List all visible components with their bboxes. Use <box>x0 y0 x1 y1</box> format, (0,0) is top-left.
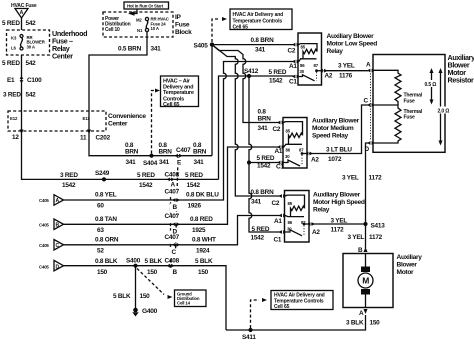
svg-text:A1: A1 <box>289 63 297 70</box>
svg-text:341: 341 <box>255 47 266 54</box>
svg-text:3 RED: 3 RED <box>3 92 21 99</box>
svg-text:C407: C407 <box>165 189 180 196</box>
svg-text:3 YEL: 3 YEL <box>342 175 359 182</box>
svg-text:0.8 YEL: 0.8 YEL <box>95 192 117 199</box>
svg-text:150: 150 <box>97 269 108 276</box>
wire 3 RED 1542 from pin 12 down and right to S249 <box>22 133 105 179</box>
wire 0.8 BRN 341 branch from S405 to relay2 C2 <box>212 45 279 123</box>
svg-text:C100: C100 <box>27 77 42 84</box>
wire 0.8 BRN 341 from S405 to relay1 C2 <box>212 44 294 46</box>
svg-text:Blower: Blower <box>397 262 418 269</box>
svg-text:Auxiliary Blower: Auxiliary Blower <box>312 118 360 125</box>
svg-text:Speed Relay: Speed Relay <box>312 133 349 140</box>
wire 3 YEL 1172 from relay3 A2 to S413 <box>311 223 366 225</box>
svg-text:Cell 65: Cell 65 <box>274 304 290 310</box>
resistor element R2 with thermal fuse (2.0 ohm) <box>373 105 401 143</box>
svg-text:0.8 ORN: 0.8 ORN <box>95 237 119 244</box>
splice S411 <box>248 328 252 332</box>
svg-text:A1: A1 <box>275 148 283 155</box>
svg-text:1924: 1924 <box>196 248 210 255</box>
connector C407 dashed line <box>176 157 179 252</box>
svg-text:1926: 1926 <box>188 203 202 210</box>
splice S404 <box>149 154 153 158</box>
svg-text:85: 85 <box>286 129 291 134</box>
svg-text:5 RED: 5 RED <box>185 172 203 179</box>
svg-text:A: A <box>366 61 371 68</box>
svg-text:Cell 14: Cell 14 <box>177 301 191 306</box>
svg-text:52: 52 <box>97 248 104 255</box>
relay U1 switch contact <box>299 75 315 81</box>
svg-text:1542: 1542 <box>187 182 201 189</box>
feed wire from Hot In Run Or Start into IP fuse block <box>131 9 137 14</box>
svg-text:Relay: Relay <box>327 48 344 55</box>
svg-text:1176: 1176 <box>339 73 353 80</box>
svg-text:85: 85 <box>301 45 306 50</box>
svg-text:5 RED: 5 RED <box>257 155 275 162</box>
svg-text:0.8: 0.8 <box>258 109 267 116</box>
wire 3 LT BLU 1072 from relay2 A2 to resistor C <box>309 105 368 154</box>
svg-text:B: B <box>173 204 178 211</box>
svg-text:A: A <box>20 10 24 16</box>
svg-text:C1: C1 <box>289 79 297 86</box>
svg-text:341: 341 <box>194 159 205 166</box>
svg-text:Center: Center <box>108 121 128 128</box>
wire 0.8 YEL 60 from C405-A through C407 pin B, becomes 0.8 DK BLU 1926, rises to relay1 A1 <box>64 62 295 201</box>
wire 5 RED 1542 from relay2 C1 tee down to relay3 C1 <box>249 163 281 233</box>
svg-text:C405: C405 <box>39 265 49 270</box>
wire 5 BLK 150 from S400 through C408 pin B to corner <box>136 266 227 330</box>
splice S249 <box>102 177 106 181</box>
svg-text:341: 341 <box>159 159 170 166</box>
svg-text:1172: 1172 <box>369 175 383 182</box>
relay U1 Auxiliary Blower Motor Low Speed Relay box <box>298 33 322 85</box>
wire 0.8 BRN 341 from S404 through C407 pin E <box>152 155 213 157</box>
svg-text:5 BLK: 5 BLK <box>113 293 131 300</box>
svg-text:341: 341 <box>251 199 262 206</box>
svg-text:C407: C407 <box>165 234 180 241</box>
splice S405 <box>210 42 214 46</box>
label box HVAC Air Delivery and Temperature Controls Cell 65 (bottom) <box>271 291 333 310</box>
wire 5 RED 542 from underhood fuse to C100 <box>21 55 23 111</box>
svg-text:5 BLK: 5 BLK <box>145 258 163 265</box>
svg-text:86: 86 <box>300 63 305 68</box>
wire 5 BLK 150 bottom rail through S411 to motor A <box>226 315 366 330</box>
relay U3 switch contact <box>285 230 302 236</box>
svg-text:5 RED: 5 RED <box>137 172 155 179</box>
svg-text:BRN: BRN <box>159 149 173 156</box>
svg-text:E12: E12 <box>10 116 18 121</box>
relay U3 Auxiliary Blower Motor High Speed Relay box <box>285 191 310 243</box>
svg-text:0.8 BRN: 0.8 BRN <box>251 37 275 44</box>
svg-text:87: 87 <box>299 147 304 152</box>
svg-text:150: 150 <box>198 269 209 276</box>
svg-text:3 BLK: 3 BLK <box>346 320 364 327</box>
label box HVAC Air Delivery and Temperature Controls Cell 65 (top) <box>230 9 292 30</box>
wire 0.8 BLK 150 from C405-D to S400 <box>64 265 136 267</box>
svg-text:Hot In Run Or Start: Hot In Run Or Start <box>127 4 164 9</box>
svg-text:30: 30 <box>285 154 290 159</box>
svg-text:Center: Center <box>52 52 73 61</box>
svg-text:0.5 BRN: 0.5 BRN <box>118 46 142 53</box>
svg-text:Convenience: Convenience <box>108 113 146 120</box>
resistor block Auxiliary Blower Motor Resistor box <box>373 55 445 153</box>
fuse RR HVAC Fuse 24 10A symbol <box>145 17 148 20</box>
svg-text:Cell 65: Cell 65 <box>233 25 249 31</box>
svg-text:150: 150 <box>147 269 158 276</box>
connector C408 dashed line <box>170 182 172 274</box>
wire 0.8 BRN 341 branch from S405 to relay3 C2 <box>212 45 281 196</box>
svg-text:C408: C408 <box>165 258 180 265</box>
svg-text:30 A: 30 A <box>27 44 35 49</box>
svg-text:5 BLK: 5 BLK <box>195 258 213 265</box>
fuse RR BLOWER 30 A symbol <box>20 35 23 38</box>
svg-text:3 RED: 3 RED <box>60 172 78 179</box>
svg-text:Fuse: Fuse <box>175 22 190 29</box>
svg-text:Motor: Motor <box>397 269 415 276</box>
wire 5 BLK 150 from S400 down to G400 <box>135 266 137 308</box>
svg-text:3 LT BLU: 3 LT BLU <box>326 147 352 154</box>
svg-text:86: 86 <box>288 220 293 225</box>
svg-text:150: 150 <box>370 320 381 327</box>
svg-text:Temperature: Temperature <box>163 90 194 96</box>
svg-text:E1: E1 <box>7 77 15 84</box>
wire 3 YEL 1176 from relay1 A2 to resistor A <box>324 70 369 72</box>
svg-text:10 A: 10 A <box>151 26 159 31</box>
motor M1 Auxiliary Blower Motor box <box>343 254 393 308</box>
svg-text:N1: N1 <box>137 28 143 33</box>
svg-text:M: M <box>362 276 369 286</box>
wire 5 RED 1542 from S249 through C408 pin A <box>104 178 219 180</box>
svg-text:C: C <box>172 249 177 256</box>
svg-text:BRN: BRN <box>125 149 139 156</box>
svg-text:5 RED: 5 RED <box>269 69 287 76</box>
measurement arrow 0.5 ohm between A and C <box>431 70 433 103</box>
svg-text:Temperature Controls: Temperature Controls <box>233 18 283 24</box>
svg-text:C: C <box>56 243 60 249</box>
label box HVAC - Air Delivery and Temperature Controls Cell 65 <box>161 76 199 107</box>
svg-text:Motor Medium: Motor Medium <box>312 125 354 132</box>
svg-text:Relay: Relay <box>313 207 330 214</box>
svg-text:0.5 Ω: 0.5 Ω <box>425 82 437 88</box>
fuse F1 HVAC Fuse triangle symbol <box>15 9 28 19</box>
svg-text:Fuse: Fuse <box>404 99 415 105</box>
svg-text:A: A <box>359 310 364 317</box>
svg-text:542: 542 <box>26 60 37 67</box>
splice S413 <box>363 222 367 226</box>
svg-text:Resistor: Resistor <box>448 76 474 85</box>
svg-text:1172: 1172 <box>331 227 345 234</box>
svg-text:1542: 1542 <box>62 182 76 189</box>
wire 5 RED 542 from HVAC fuse to underhood fuse block <box>21 18 23 30</box>
svg-text:85: 85 <box>288 201 293 206</box>
svg-text:C405: C405 <box>39 198 49 203</box>
svg-text:Block: Block <box>175 29 192 36</box>
wire 5 RED 1542 from S412 down to relay2 C1 <box>249 76 279 163</box>
svg-text:3 YEL: 3 YEL <box>348 234 365 241</box>
svg-text:542: 542 <box>26 20 37 27</box>
svg-text:S404: S404 <box>143 160 158 167</box>
relay U2 Auxiliary Blower Motor Medium Speed Relay box <box>283 118 307 169</box>
splice S412 <box>247 74 251 78</box>
svg-text:M2: M2 <box>136 18 142 23</box>
svg-text:0.8 BLK: 0.8 BLK <box>95 258 118 265</box>
svg-text:S412: S412 <box>244 68 259 75</box>
wire 0.5 BRN 341 from IP fuse down-left to convenience center E11 <box>89 32 147 111</box>
dashed reference from S405 up to HVAC controls box <box>212 19 219 42</box>
svg-text:3 YEL: 3 YEL <box>331 218 348 225</box>
dashed reference from S404 to HVAC controls box <box>152 91 157 154</box>
svg-text:1542: 1542 <box>251 235 265 242</box>
svg-text:C407: C407 <box>165 213 180 220</box>
svg-text:1542: 1542 <box>257 163 271 170</box>
svg-text:Motor High Speed: Motor High Speed <box>313 199 365 206</box>
svg-text:G400: G400 <box>142 308 158 315</box>
svg-text:1072: 1072 <box>328 156 342 163</box>
svg-text:A2: A2 <box>312 229 320 236</box>
connector dotted line along resistor terminals <box>370 74 372 141</box>
label box Ground Distribution Cell 14 <box>175 290 207 307</box>
pin 11 of C202 <box>88 111 90 131</box>
pin 12 of C202 <box>20 130 24 135</box>
wire 0.8 ORN 52 from C405-C through C407 pin C, becomes 0.8 WHT 1924, rises to relay3 A1 <box>64 216 281 245</box>
svg-text:30: 30 <box>300 69 305 74</box>
svg-text:S249: S249 <box>95 170 110 177</box>
svg-text:B: B <box>173 269 178 276</box>
measurement arrow 2.0 ohm between A and D <box>440 70 442 144</box>
svg-text:1172: 1172 <box>369 234 383 241</box>
svg-text:C2: C2 <box>288 48 296 55</box>
svg-text:0.8 BRN: 0.8 BRN <box>251 189 275 196</box>
wire 5 RED 1542 rising from C408-A to S412 with crossovers <box>219 76 250 179</box>
svg-text:150: 150 <box>140 293 151 300</box>
svg-text:BRN: BRN <box>193 149 207 156</box>
wire through convenience center left (E12 to pin 12) <box>21 111 23 131</box>
svg-text:3 YEL: 3 YEL <box>338 63 355 70</box>
dashed reference from S400 to ground distribution box <box>137 269 164 295</box>
wire 0.8 TAN 63 from C405-B through C407 pin D, becomes 0.8 RED 1925, rises to relay2 A1 <box>64 147 280 224</box>
svg-text:Auxiliary: Auxiliary <box>397 254 423 261</box>
svg-text:HVAC Air Delivery and: HVAC Air Delivery and <box>233 12 284 18</box>
underhood fuse-relay center dashed box <box>7 30 50 55</box>
relay U2 switch contact <box>284 160 301 166</box>
svg-text:Auxiliary Blower: Auxiliary Blower <box>327 33 375 40</box>
svg-text:S405: S405 <box>194 43 209 50</box>
svg-text:S413: S413 <box>371 223 386 230</box>
svg-text:C: C <box>364 98 369 105</box>
svg-text:Cell 10: Cell 10 <box>105 27 120 33</box>
svg-text:A2: A2 <box>325 73 333 80</box>
svg-text:0.8 TAN: 0.8 TAN <box>95 216 117 223</box>
svg-text:A2: A2 <box>311 157 319 164</box>
svg-text:C405: C405 <box>39 223 49 228</box>
svg-text:C407: C407 <box>176 147 191 154</box>
wire 0.8 BRN 341 from pin 11 to S404 <box>89 133 152 156</box>
wire 3 YEL 1172 from S413 to motor B <box>365 224 367 248</box>
svg-text:63: 63 <box>97 227 104 234</box>
svg-text:A1: A1 <box>274 218 282 225</box>
svg-text:5 RED: 5 RED <box>2 20 20 27</box>
dashed reference from S411 to HVAC controls box <box>251 300 260 328</box>
svg-text:5 RED: 5 RED <box>252 226 270 233</box>
svg-text:A: A <box>56 198 60 204</box>
svg-text:BRN: BRN <box>258 116 272 123</box>
svg-text:341: 341 <box>151 46 162 53</box>
IP fuse block dashed box <box>103 12 173 37</box>
svg-text:1925: 1925 <box>192 227 206 234</box>
svg-text:Cell 65: Cell 65 <box>163 102 179 108</box>
svg-text:0.8 RED: 0.8 RED <box>190 216 213 223</box>
svg-text:K3: K3 <box>11 36 17 41</box>
svg-text:Auxiliary Blower: Auxiliary Blower <box>313 192 361 199</box>
ground G400 <box>133 308 138 313</box>
svg-text:341: 341 <box>258 125 269 132</box>
resistor element R1 with thermal fuse (0.5 ohm) <box>373 70 401 105</box>
svg-text:L6: L6 <box>11 46 16 51</box>
svg-text:11: 11 <box>80 135 87 142</box>
svg-text:C202: C202 <box>96 135 111 142</box>
svg-text:60: 60 <box>97 203 104 210</box>
svg-text:C2: C2 <box>272 200 280 207</box>
svg-text:Motor Low Speed: Motor Low Speed <box>327 41 378 48</box>
svg-text:542: 542 <box>26 92 37 99</box>
splice S400 <box>133 264 137 268</box>
svg-text:C405: C405 <box>39 243 49 248</box>
svg-text:IP: IP <box>175 14 182 21</box>
wire 3 YEL 1172 from resistor D down to S413 <box>366 143 369 224</box>
convenience center dashed box <box>8 111 106 131</box>
svg-text:S411: S411 <box>242 334 256 341</box>
svg-text:1542: 1542 <box>139 182 153 189</box>
svg-text:86: 86 <box>286 147 291 152</box>
svg-text:87: 87 <box>314 63 319 68</box>
svg-text:341: 341 <box>126 159 137 166</box>
motor M1 symbol <box>365 254 367 268</box>
svg-text:0.8 WHT: 0.8 WHT <box>192 237 216 244</box>
svg-text:C1: C1 <box>274 237 282 244</box>
svg-text:C2: C2 <box>273 126 281 133</box>
svg-text:5 RED: 5 RED <box>2 60 20 67</box>
label box Hot In Run Or Start <box>124 2 169 9</box>
svg-text:S400: S400 <box>126 258 141 265</box>
svg-text:Fuse: Fuse <box>404 115 415 121</box>
svg-text:2.0 Ω: 2.0 Ω <box>438 109 450 115</box>
svg-text:D: D <box>56 264 60 270</box>
svg-text:12: 12 <box>12 134 19 141</box>
svg-text:0.8 DK BLU: 0.8 DK BLU <box>186 192 219 199</box>
svg-text:1542: 1542 <box>269 78 283 85</box>
wire 5 RED 1542 from S412 to relay1 C1 <box>249 75 294 77</box>
svg-text:B: B <box>56 222 60 228</box>
svg-text:A: A <box>171 182 176 189</box>
